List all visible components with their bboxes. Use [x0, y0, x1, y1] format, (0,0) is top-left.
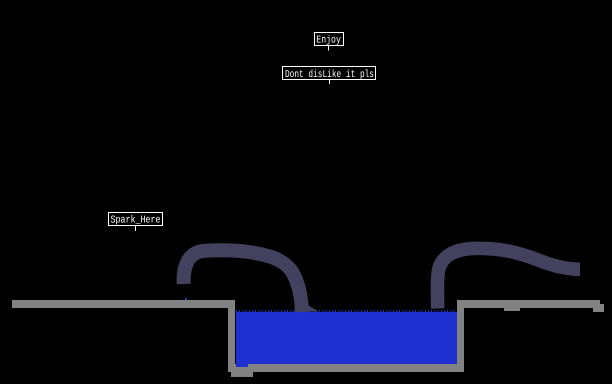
basin left wall: [228, 300, 235, 372]
svg-text:Enjoy: Enjoy: [316, 35, 341, 47]
basin right wall: [457, 300, 465, 372]
sign Spark Here pointer: [135, 226, 136, 231]
left ground line (gray wall): [12, 300, 235, 308]
sign Dont disLike it pls box: [283, 67, 376, 80]
left pipe arc: [184, 250, 302, 312]
basin pedestal foot: [231, 372, 253, 377]
svg-text:Spark_Here: Spark_Here: [111, 215, 161, 227]
sign Spark Here box: [109, 213, 163, 226]
sign Enjoy pointer: [328, 46, 329, 51]
water notch at basin floor left: [236, 364, 248, 367]
basin floor: [228, 364, 464, 372]
sign Dont pointer: [329, 80, 330, 84]
right line lower bump: [504, 308, 521, 311]
right ground line (gray wall): [457, 300, 601, 308]
left pipe arc flared foot: [299, 289, 319, 312]
sign Enjoy box: [315, 33, 344, 46]
water pool: [236, 312, 457, 364]
water surface ripple ticks: [236, 310, 457, 312]
right line end block: [593, 304, 605, 312]
stray water droplet: [185, 298, 187, 300]
svg-text:Dont disLike it pls: Dont disLike it pls: [285, 69, 374, 81]
right pipe arc: [437, 248, 580, 308]
